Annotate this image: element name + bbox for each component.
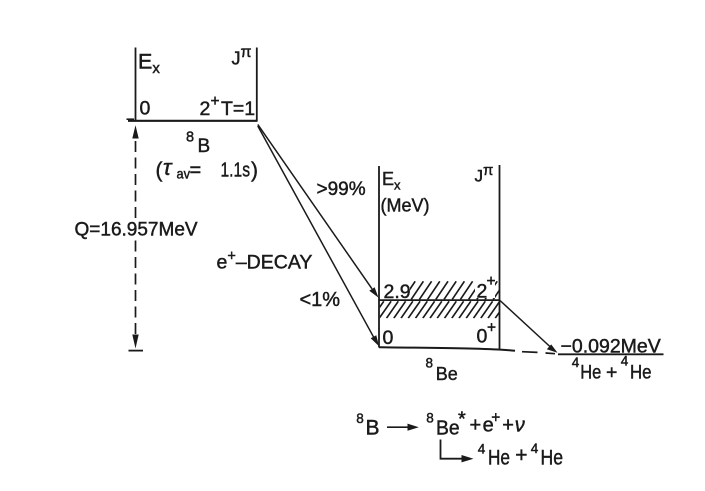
svg-text:2: 2: [200, 98, 211, 120]
svg-text:2.9: 2.9: [384, 281, 411, 303]
node: up arrowhead: [132, 125, 138, 138]
svg-text:(MeV): (MeV): [381, 196, 430, 216]
svg-text:Q=16.957MeV: Q=16.957MeV: [75, 220, 198, 241]
node: -0.092 MeV threshold level line: [558, 353, 664, 355]
svg-text:8: 8: [426, 355, 434, 370]
node: 2+ spin label with white backing: [475, 277, 495, 299]
svg-text:Be: Be: [436, 363, 458, 384]
svg-text:4: 4: [478, 442, 486, 457]
wire: reaction arrow: [387, 426, 411, 428]
svg-text:He: He: [488, 446, 510, 469]
wire: dashed continuation of ground level: [522, 351, 538, 354]
node: tick left of 8B axis: [127, 118, 135, 120]
svg-text:0: 0: [477, 326, 488, 348]
svg-text:+: +: [487, 320, 496, 337]
svg-text:−0.092MeV: −0.092MeV: [561, 335, 661, 357]
svg-text:>99%: >99%: [317, 179, 366, 200]
wire: dashed Q measurement line (upper part): [135, 141, 137, 218]
wire: 8Be Ex axis vertical line: [378, 166, 380, 348]
svg-text:He: He: [630, 361, 652, 383]
svg-text:T=1: T=1: [221, 98, 255, 120]
svg-text:): ): [251, 159, 258, 182]
wire: >99% branch arrow to 2.9 MeV level: [258, 125, 372, 289]
svg-text:4: 4: [531, 441, 539, 456]
svg-text:+: +: [491, 410, 500, 427]
svg-text:Ex: Ex: [138, 49, 160, 77]
svg-text:0: 0: [383, 327, 394, 349]
svg-text:Ex: Ex: [382, 169, 401, 193]
wire: L-shaped breakup arrow: [441, 440, 465, 459]
node: down arrowhead: [132, 335, 138, 349]
svg-text:+: +: [211, 93, 220, 110]
svg-text:=: =: [190, 160, 202, 182]
svg-text:τ: τ: [163, 155, 173, 180]
svg-text:4: 4: [621, 354, 629, 369]
wire: 8B Ex axis vertical line: [135, 48, 137, 122]
node: hatched width band of 2.9 MeV level (upper): [403, 281, 522, 299]
svg-text:ν: ν: [515, 415, 525, 437]
svg-text:+: +: [470, 415, 482, 437]
svg-text:Be: Be: [436, 417, 460, 439]
svg-text:*: *: [458, 409, 466, 431]
svg-text:+: +: [606, 361, 617, 383]
svg-text:e+–DECAY: e+–DECAY: [217, 248, 313, 273]
svg-text:He: He: [580, 361, 601, 383]
svg-text:B: B: [366, 416, 380, 439]
svg-text:1.1s: 1.1s: [221, 160, 251, 182]
svg-text:Jπ: Jπ: [232, 44, 252, 69]
svg-text:+: +: [487, 273, 496, 290]
svg-text:4: 4: [572, 355, 580, 370]
svg-text:+: +: [502, 415, 514, 437]
node: 8Be ground level line: [379, 347, 515, 351]
svg-text:(: (: [156, 159, 163, 182]
node: 2.9 MeV level line: [379, 299, 500, 301]
wire: arrow from 2.9 level to 4He+4He threshold: [500, 301, 552, 349]
wire: 8Be Jpi column vertical line: [499, 165, 501, 349]
wire: 8B Jpi column vertical line: [256, 48, 258, 122]
svg-text:8: 8: [186, 130, 194, 146]
node: 8B ground-state level line: [128, 120, 258, 122]
svg-text:av: av: [177, 166, 191, 182]
svg-text:8: 8: [356, 411, 364, 426]
node: bottom reference tick: [129, 350, 144, 352]
svg-text:+: +: [515, 444, 527, 467]
svg-text:8: 8: [426, 411, 434, 426]
wire: <1% branch arrow to ground state: [258, 126, 374, 338]
svg-text:B: B: [198, 136, 211, 157]
wire: dashed Q measurement line (lower part): [135, 241, 137, 337]
node: hatched width band of 2.9 MeV level (lower): [372, 301, 522, 318]
svg-text:Jπ: Jπ: [475, 162, 494, 186]
svg-text:0: 0: [140, 98, 151, 120]
svg-text:He: He: [541, 446, 564, 469]
svg-text:<1%: <1%: [300, 289, 341, 311]
